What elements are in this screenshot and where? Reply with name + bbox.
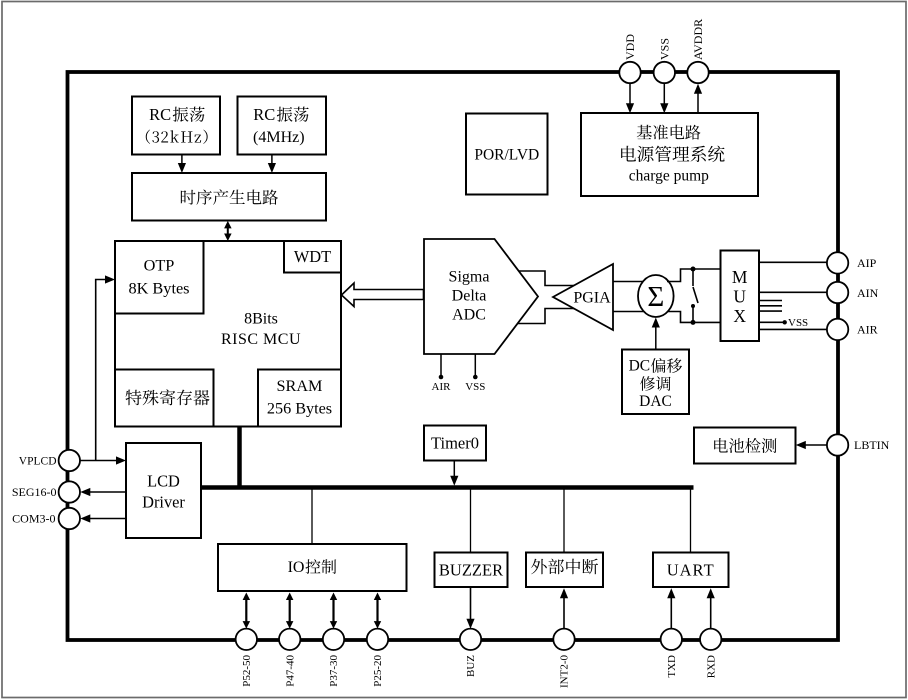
svg-text:M: M (732, 267, 748, 287)
wire MUX to AIP (759, 261, 827, 263)
svg-text:RC: RC (149, 105, 171, 124)
block PGIA amplifier (553, 264, 613, 330)
block SRAM 256 Bytes (258, 370, 341, 427)
svg-text:8K Bytes: 8K Bytes (128, 278, 189, 297)
svg-text:AVDDR: AVDDR (691, 19, 705, 60)
wire timing to MCU double arrow (227, 227, 229, 235)
wire bus to ext interrupt (563, 489, 565, 553)
block MUX (721, 251, 760, 342)
wire IO port double arrow 3 (332, 599, 334, 624)
block 8bit RISC MCU (115, 241, 341, 427)
wire VSS arrow (663, 84, 665, 107)
wire TXD to UART arrow (670, 593, 672, 629)
wire PGIA to sigma top (613, 281, 645, 283)
svg-text:SRAM: SRAM (277, 377, 323, 395)
svg-text:LBTIN: LBTIN (854, 438, 890, 452)
svg-text:AIN: AIN (857, 286, 879, 300)
pin VDD (619, 62, 640, 83)
wire LCD to COM arrow (84, 518, 126, 520)
svg-text:ADC: ADC (452, 307, 486, 324)
svg-text:VSS: VSS (465, 381, 485, 393)
block battery detect (694, 428, 796, 464)
wire INT to block arrow (563, 593, 565, 629)
wire MUX to AIR (759, 328, 827, 330)
svg-text:AIR: AIR (432, 381, 452, 393)
svg-text:WDT: WDT (294, 247, 331, 266)
svg-text:AIR: AIR (857, 323, 878, 337)
wire BUZZER to BUZ arrow (470, 587, 472, 625)
wire bus to BUZZER (470, 489, 472, 553)
block OTP 8K Bytes (115, 241, 204, 314)
wire IO port double arrow 4 (376, 599, 378, 624)
bus ADC to MCU hollow arrow (342, 283, 424, 307)
chip boundary rectangle (68, 72, 839, 640)
stub MUX c (759, 310, 782, 312)
pin P52-50 (236, 629, 257, 650)
svg-text:LCD: LCD (147, 471, 180, 490)
block special registers (115, 370, 214, 427)
pin VPLCD (59, 450, 80, 471)
svg-text:Timer0: Timer0 (431, 434, 479, 453)
svg-text:P25-20: P25-20 (372, 655, 384, 687)
wire VPLCD to LCD arrow (80, 460, 123, 462)
wire LBTIN to battery arrow (800, 444, 828, 446)
svg-text:BUZZER: BUZZER (439, 560, 503, 579)
pin VSS (654, 62, 675, 83)
junction bottom (691, 320, 696, 325)
svg-text:SEG16-0: SEG16-0 (12, 485, 57, 499)
svg-text:VSS: VSS (657, 38, 671, 60)
svg-text:TXD: TXD (666, 655, 678, 678)
svg-text:VSS: VSS (788, 317, 808, 329)
wire ADC-PGIA channel (517, 271, 575, 324)
svg-text:Σ: Σ (647, 281, 664, 313)
pin COM3-0 (59, 508, 80, 529)
block external interrupt (526, 553, 603, 588)
svg-text:BUZ: BUZ (465, 655, 477, 677)
svg-text:DC: DC (629, 358, 651, 375)
stub MUX VSS (759, 321, 784, 323)
svg-text:DAC: DAC (639, 393, 672, 410)
svg-text:RC: RC (253, 105, 275, 124)
wire RC32 to timing arrow (181, 155, 183, 167)
bus MCU vertical (237, 427, 242, 490)
svg-text:P52-50: P52-50 (241, 655, 253, 687)
pin TXD (661, 629, 682, 650)
svg-text:Driver: Driver (142, 492, 185, 511)
pin P25-20 (367, 629, 388, 650)
block RC oscillator 32kHz (132, 97, 220, 155)
block RC oscillator 4MHz (238, 97, 327, 155)
pin INT2-0 (553, 629, 574, 650)
wire VPLCD branch to OTP arrow (96, 280, 112, 461)
wire MUX to AIN (759, 291, 827, 293)
wire sigma to MUX bottom (667, 312, 721, 323)
svg-text:X: X (733, 306, 746, 326)
svg-text:RXD: RXD (705, 655, 717, 678)
block Sigma Delta ADC (424, 239, 538, 354)
svg-text:OTP: OTP (144, 255, 175, 274)
block WDT (284, 241, 341, 273)
wire DAC to sigma arrow (655, 323, 657, 350)
svg-text:POR/LVD: POR/LVD (474, 146, 539, 163)
wire LCD to SEG arrow (84, 491, 126, 493)
wire bus to UART (690, 489, 692, 553)
svg-text:RISC MCU: RISC MCU (221, 331, 301, 348)
stub MUX a (759, 300, 782, 302)
svg-text:(4MHz): (4MHz) (253, 129, 305, 146)
wire Timer0 to bus arrow (453, 461, 455, 480)
svg-text:VDD: VDD (623, 34, 637, 60)
svg-text:Sigma: Sigma (449, 269, 490, 286)
stub ADC VSS (474, 354, 476, 376)
bus main horizontal (201, 485, 694, 490)
pin P47-40 (279, 629, 300, 650)
svg-text:IO: IO (288, 559, 305, 576)
pin BUZ (460, 629, 481, 650)
svg-text:UART: UART (667, 560, 715, 579)
pin AIN (827, 282, 848, 303)
wire sigma to MUX top (667, 269, 721, 282)
pin P37-30 (323, 629, 344, 650)
svg-text:P37-30: P37-30 (328, 655, 340, 687)
svg-text:COM3-0: COM3-0 (12, 512, 55, 526)
block LCD Driver (126, 443, 201, 538)
pin LBTIN (827, 434, 848, 455)
block timing generator (132, 173, 326, 221)
wire IO port double arrow 2 (289, 599, 291, 624)
block POR/LVD (466, 114, 548, 195)
pin AIP (827, 252, 848, 273)
svg-text:256 Bytes: 256 Bytes (267, 400, 332, 418)
wire RC4M to timing arrow (271, 155, 273, 167)
svg-text:PGIA: PGIA (573, 289, 611, 306)
block UART (653, 553, 729, 588)
wire VDD arrow (629, 84, 631, 107)
stub ADC AIR (440, 354, 442, 376)
pin RXD (700, 629, 721, 650)
switch S1 (692, 269, 694, 286)
svg-text:8Bits: 8Bits (244, 310, 278, 327)
wire IO port double arrow 1 (245, 599, 247, 624)
block power management (581, 113, 758, 196)
pin AVDDR (687, 62, 708, 83)
svg-text:U: U (733, 286, 746, 306)
wire RXD to UART arrow (710, 593, 712, 629)
svg-text:Delta: Delta (452, 288, 487, 305)
junction top (691, 267, 696, 272)
wire PGIA to sigma bottom (613, 311, 645, 313)
block IO control (218, 544, 407, 591)
block DC offset trim DAC (622, 350, 689, 415)
svg-text:P47-40: P47-40 (284, 655, 296, 687)
summing node sigma (638, 275, 674, 317)
svg-text:INT2-0: INT2-0 (559, 655, 571, 688)
pin AIR (827, 319, 848, 340)
svg-text:charge pump: charge pump (629, 168, 709, 185)
svg-text:VPLCD: VPLCD (19, 456, 57, 468)
svg-text:AIP: AIP (857, 256, 877, 270)
block Timer0 (424, 426, 486, 461)
block BUZZER (435, 553, 508, 588)
pin SEG16-0 (59, 481, 80, 502)
wire bus to IO (311, 489, 313, 544)
stub MUX b (759, 305, 782, 307)
wire AVDDR arrow (697, 90, 699, 113)
